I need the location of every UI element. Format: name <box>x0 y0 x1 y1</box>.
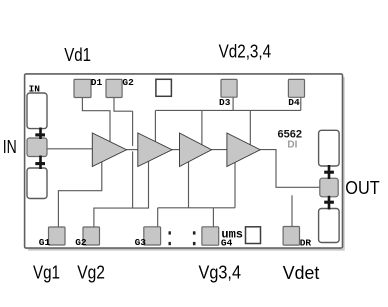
svg-text:D4: D4 <box>288 97 300 108</box>
svg-text:Vd1: Vd1 <box>64 44 91 65</box>
svg-text:Vd2,3,4: Vd2,3,4 <box>219 41 272 62</box>
svg-text:IN: IN <box>3 136 17 157</box>
svg-text:G1: G1 <box>39 237 51 248</box>
svg-text:ums: ums <box>221 227 243 241</box>
svg-text:Vg1: Vg1 <box>33 262 60 283</box>
svg-text:D3: D3 <box>219 97 231 108</box>
svg-text:DI: DI <box>287 140 297 151</box>
svg-text:G2: G2 <box>122 77 134 88</box>
svg-text:OUT: OUT <box>345 177 379 198</box>
svg-text:DR: DR <box>300 237 312 248</box>
svg-text:Vg3,4: Vg3,4 <box>199 261 242 282</box>
svg-text:Vdet: Vdet <box>283 262 320 283</box>
svg-text:D1: D1 <box>91 77 103 88</box>
svg-text:G3: G3 <box>135 237 147 248</box>
svg-text:IN: IN <box>29 83 41 94</box>
svg-text:Vg2: Vg2 <box>77 262 105 283</box>
svg-text:G2: G2 <box>75 237 87 248</box>
